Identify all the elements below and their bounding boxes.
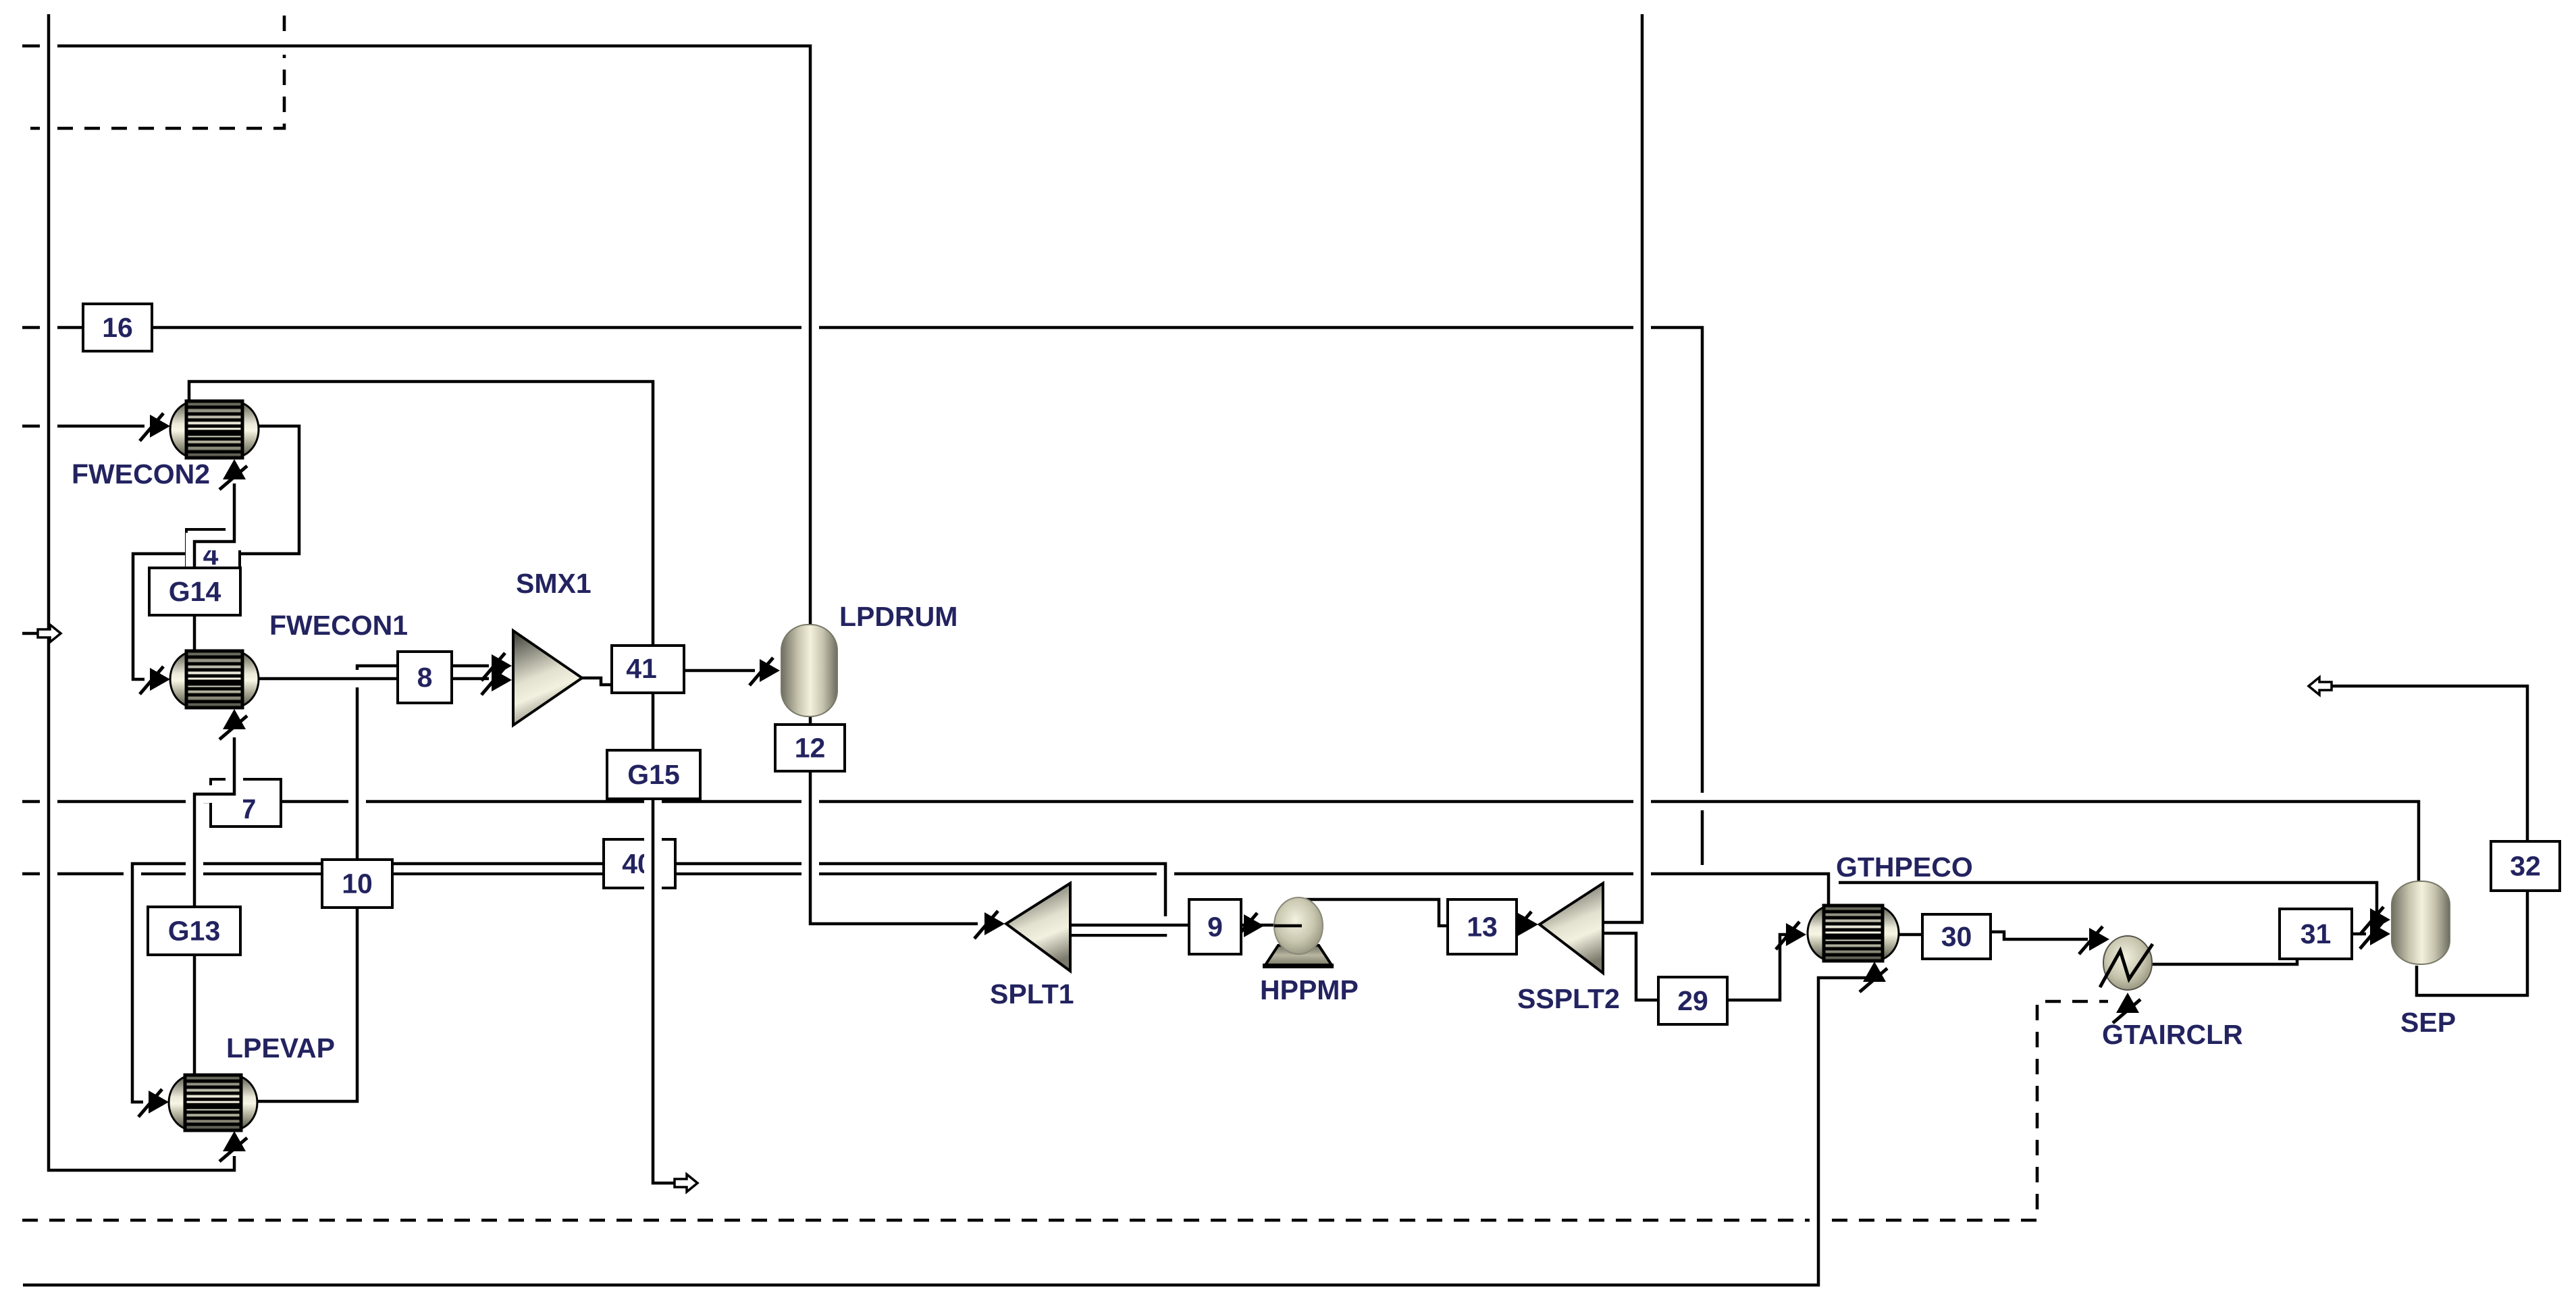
arrows into SMX1 [492,654,512,677]
wire feed into FWECON2 [22,417,144,435]
wire stream 8: FWECON1 out to SMX1 [259,670,489,687]
pump HPPMP [1265,945,1332,965]
wire HPPMP outlet to box 13 [1298,899,1449,926]
splitter SSPLT2 [1540,883,1603,973]
svg-text:13: 13 [1467,912,1498,943]
svg-text:32: 32 [2510,851,2541,882]
wire box13 to SSPLT2 [1517,917,1521,935]
wire stream 16 [22,327,1702,865]
heat exchanger FWECON1 [170,651,259,708]
dashed utility line top-left [30,14,284,128]
wire stream 32 loop: SEP bottom to exit arrow [2330,686,2527,995]
node box stream 31 [2280,909,2352,959]
svg-text:GTHPECO: GTHPECO [1836,851,1973,883]
heat exchanger FWECON2 [170,401,259,458]
open feed arrow left [22,632,38,635]
node box stream 8 [398,652,452,703]
node box stream 9 [1189,899,1241,954]
wire heat stream G13 [194,737,234,1076]
node box stream 30 [1922,914,1991,959]
arrow into GTAIRCLR [2089,928,2109,951]
wire SPLT1 upper outlet to HPPMP [1070,916,1274,934]
wire recycle: SPLT1 lower outlet up and to LPEVAP inlet [132,864,1165,1102]
node box heat G14 [149,568,240,615]
svg-text:G15: G15 [627,759,680,790]
arrow into LPEVAP [149,1091,169,1113]
arrow into SPLT1 [984,912,1005,935]
node box stream 7 [211,779,281,827]
arrow into SSPLT2 [1518,913,1538,936]
node box stream 4 [186,529,240,577]
svg-text:SPLT1: SPLT1 [990,978,1074,1010]
wire stream 10: LPEVAP out up to SMX1 [257,666,489,1101]
wire heat stream G14 [194,483,234,652]
wire G15/flue gas: FWECON2 top via 41,G15 to exit [189,382,676,1183]
svg-text:SEP: SEP [2400,1007,2456,1038]
svg-text:SMX1: SMX1 [516,568,592,599]
wire lower double line (to GTHPECO top) [22,874,1829,907]
wire line into SEP upper inlet [1839,883,2377,916]
wire box41 to LPDRUM [684,662,755,679]
wire SMX1 outlet to box 41 [582,678,612,685]
node box stream 13 [1448,899,1517,954]
wire GTHPECO outlet to box30 [1899,926,1922,943]
wire stream 4: FWECON2 out to FWECON1 in [133,426,299,679]
wire box29 to GTHPECO inlet [1727,935,1787,1000]
mixer SMX1 [513,631,582,725]
drum LPDRUM [781,625,837,716]
svg-text:31: 31 [2301,918,2332,949]
drum SEP [2392,881,2450,964]
svg-text:FWECON2: FWECON2 [72,459,210,490]
arrow into GTAIRCLR bottom [2116,993,2139,1013]
node box stream 32 [2491,841,2560,891]
wire stream 7 (long horizontal into SEP) [22,802,2419,885]
node box stream 29 [1658,977,1727,1024]
heat exchanger GTHPECO [1808,906,1899,961]
arrow into GTHPECO [1786,923,1806,946]
svg-text:GTAIRCLR: GTAIRCLR [2102,1019,2243,1050]
svg-text:SSPLT2: SSPLT2 [1517,983,1620,1014]
node box stream 41 [612,646,684,693]
node box stream 16 [83,304,152,351]
svg-text:30: 30 [1941,921,1972,952]
wire left vertical to LPEVAP bottom [49,14,234,1170]
svg-text:FWECON1: FWECON1 [269,610,408,641]
arrow into LPEVAP bottom [223,1131,246,1151]
arrow into FWECON2 bottom [223,459,246,479]
open exit arrow flue gas [675,1174,698,1192]
wire GTAIRCLR outlet to box31 and SEP [2151,934,2366,964]
arrow into LPDRUM [760,659,780,682]
wire LPDRUM bottom through 12 to SPLT1 [810,716,978,924]
wire SSPLT2 upper outlet up to top [1603,14,1642,922]
node box stream 10 [322,860,392,908]
wire SSPLT2 lower outlet to box 29 [1603,933,1658,1000]
arrow into FWECON2 [150,415,170,438]
svg-text:HPPMP: HPPMP [1260,974,1359,1005]
wire top line into LPDRUM [22,46,810,625]
node box stream 40 [604,839,675,888]
arrow into HPPMP [1244,914,1264,937]
node box heat G15 [607,750,700,799]
svg-text:7: 7 [241,793,257,824]
arrow into GTHPECO bottom [1863,962,1886,982]
svg-text:LPDRUM: LPDRUM [839,601,957,632]
open exit arrow top right [2309,677,2332,695]
splitter SPLT1 [1006,883,1070,971]
heater GTAIRCLR [2103,936,2152,990]
arrow into FWECON1 bottom [223,709,246,729]
svg-text:16: 16 [102,312,133,343]
node box stream 12 [775,725,845,771]
arrows into SEP [2370,908,2390,931]
wire feedwater bottom line to GTHPECO [23,978,1874,1285]
wire box30 to GTAIRCLR [1991,932,2088,939]
svg-text:29: 29 [1677,985,1708,1016]
svg-text:10: 10 [342,868,373,899]
arrow into FWECON1 [150,668,170,691]
svg-text:12: 12 [795,733,826,764]
svg-text:8: 8 [417,662,433,693]
dashed heat stream to GTAIRCLR [22,1001,2108,1220]
svg-text:G14: G14 [169,576,221,607]
svg-text:41: 41 [626,653,657,684]
heat exchanger LPEVAP [169,1075,257,1130]
svg-text:G13: G13 [168,916,221,947]
svg-text:9: 9 [1207,912,1223,943]
svg-text:LPEVAP: LPEVAP [226,1032,335,1064]
node box heat G13 [148,907,240,955]
